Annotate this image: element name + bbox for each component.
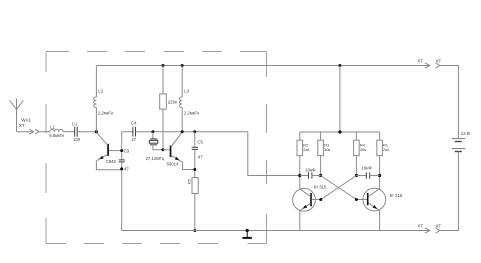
wire R4 upper bbox=[355, 132, 357, 140]
wire R4 lower bbox=[355, 156, 357, 176]
svg-text:30к: 30к bbox=[360, 147, 366, 152]
svg-text:Кт 315: Кт 315 bbox=[390, 193, 403, 198]
svg-text:47: 47 bbox=[198, 154, 203, 159]
junction dot crystal top bbox=[151, 130, 154, 133]
wire L3 upper bbox=[181, 66, 183, 98]
resistor R1 bbox=[377, 140, 383, 155]
wire C3 lower bbox=[121, 162, 123, 231]
capacitor 10nF right bbox=[366, 172, 369, 178]
svg-text:6,8мкГн: 6,8мкГн bbox=[49, 133, 65, 138]
wire C1 to node A bbox=[77, 131, 96, 133]
node A junction dot bbox=[95, 130, 98, 133]
svg-text:47: 47 bbox=[131, 137, 136, 142]
junction dot right collector node bbox=[378, 174, 381, 177]
connector XT bottom plug arrow bbox=[425, 228, 430, 233]
multivibrator rail bbox=[300, 131, 380, 133]
junction dot multivibrator rail bbox=[338, 130, 341, 133]
transistor VT3 emitter lead bbox=[300, 203, 311, 210]
wire L2 upper bbox=[95, 66, 97, 98]
junction dot R5 bottom bbox=[193, 229, 196, 232]
cross coupling wire right to left bbox=[321, 176, 357, 200]
connector XT plug arrow (antenna) bbox=[29, 129, 34, 134]
transistor VT4 base lead bbox=[356, 199, 367, 201]
svg-text:10нФ: 10нФ bbox=[305, 167, 315, 172]
junction dot ground bbox=[246, 229, 249, 232]
wire R5 lower bbox=[194, 194, 196, 231]
svg-text:L3: L3 bbox=[184, 88, 189, 93]
wire antenna to connector bbox=[17, 131, 34, 133]
junction dot right cap left node bbox=[355, 174, 358, 177]
junction dot C5 top bbox=[193, 130, 196, 133]
svg-text:12 В: 12 В bbox=[461, 131, 470, 136]
junction dot VT3 base bbox=[319, 198, 322, 201]
transistor VT4 emitter arrow bbox=[373, 205, 378, 209]
wire L1 to C1 bbox=[63, 131, 74, 133]
junction dot 220k top bbox=[162, 64, 165, 67]
junction dot C3 emitter node bbox=[120, 167, 123, 170]
transistor VT4 KT315 circle bbox=[363, 188, 386, 211]
wire crystal upper bbox=[152, 132, 154, 139]
svg-text:L2: L2 bbox=[98, 88, 103, 93]
inductor L2 bbox=[94, 97, 97, 108]
junction dot VT2 base node bbox=[162, 148, 165, 151]
transistor VT1 collector lead bbox=[96, 132, 107, 145]
transistor VT2 base lead bbox=[163, 149, 170, 151]
wire VT1 emitter down bbox=[96, 161, 121, 170]
wire R3 lower bbox=[320, 156, 322, 176]
svg-text:47: 47 bbox=[124, 167, 129, 172]
wire C5 lower bbox=[194, 149, 196, 177]
wire C5 upper bbox=[194, 132, 196, 148]
wire R1 lower to VT4 collector bbox=[379, 156, 381, 189]
transistor VT3 KT315 circle bbox=[293, 188, 316, 211]
wire L3 lower bbox=[181, 108, 183, 132]
resistor R4 bbox=[354, 140, 360, 155]
transistor VT2 emitter arrow bbox=[175, 157, 180, 161]
wire oscillator rail to multivibrator bbox=[248, 132, 300, 176]
dashed enclosure left border bbox=[45, 52, 47, 244]
wire C3 branch upper bbox=[121, 132, 123, 160]
wire R3 upper bbox=[320, 132, 322, 140]
svg-text:С945: С945 bbox=[106, 159, 117, 164]
transistor VT4 base bar bbox=[367, 193, 369, 205]
inductor L1 bbox=[50, 129, 63, 131]
transistor VT3 emitter arrow bbox=[303, 205, 308, 209]
top supply rail bbox=[96, 65, 429, 67]
transistor VT3 base bar bbox=[310, 193, 312, 206]
svg-text:C3: C3 bbox=[124, 148, 130, 153]
resistor 220k bbox=[160, 94, 167, 109]
wire top socket to battery bbox=[440, 66, 459, 139]
battery GB1 12V bbox=[452, 139, 465, 152]
wire connector to L1 bbox=[39, 131, 50, 133]
svg-text:220к: 220к bbox=[168, 100, 177, 105]
transistor VT2 emitter lead bbox=[171, 155, 183, 162]
wire R2 upper bbox=[299, 132, 301, 140]
svg-text:2к4: 2к4 bbox=[383, 147, 390, 152]
wire right cap feed bbox=[356, 175, 366, 177]
wire C4 to crystal node bbox=[136, 131, 248, 133]
svg-text:C4: C4 bbox=[131, 121, 137, 126]
wire 220k upper bbox=[162, 66, 164, 94]
junction dot VT1 base node bbox=[120, 149, 123, 152]
junction dot left cap right node bbox=[319, 174, 322, 177]
svg-text:XT: XT bbox=[417, 59, 423, 64]
wire multivibrator feed vertical bbox=[339, 66, 341, 133]
junction dot L3 collector node bbox=[181, 130, 184, 133]
wire 220k lower bbox=[162, 109, 164, 150]
wire VT2 emitter down bbox=[183, 162, 195, 169]
svg-text:Кт 315: Кт 315 bbox=[314, 185, 327, 190]
wire VT4 emitter down bbox=[379, 211, 381, 231]
transistor VT3 base lead bbox=[312, 199, 321, 201]
wire VT3 emitter down bbox=[299, 211, 301, 231]
capacitor C5 bbox=[192, 147, 198, 149]
dashed enclosure right border bbox=[266, 52, 268, 244]
transistor VT2 collector lead bbox=[171, 132, 182, 147]
junction dot left collector node bbox=[298, 174, 301, 177]
wire left cap feed bbox=[300, 175, 309, 177]
capacitor C4 bbox=[133, 127, 136, 137]
capacitor C1 bbox=[75, 127, 78, 137]
dashed enclosure top border bbox=[46, 51, 267, 53]
wire R2 lower to VT3 collector bbox=[299, 156, 301, 189]
junction dot L3 top bbox=[181, 64, 184, 67]
transistor VT2 S9014 base bar bbox=[170, 146, 172, 158]
connector XT socket (antenna) bbox=[35, 129, 39, 134]
resistor R5 emitter bbox=[192, 178, 198, 194]
ground bottom wire bbox=[122, 230, 430, 232]
crystal ZQ1 bbox=[149, 139, 158, 145]
resistor R3 bbox=[318, 140, 324, 155]
capacitor 10nF left bbox=[309, 172, 312, 178]
svg-text:S9014: S9014 bbox=[166, 161, 179, 166]
svg-text:100: 100 bbox=[73, 137, 81, 142]
junction dot VT4 base bbox=[355, 198, 358, 201]
transistor VT3 collector lead bbox=[300, 189, 311, 197]
wire L2 lower bbox=[95, 108, 97, 132]
junction dot multivibrator feed top bbox=[338, 64, 341, 67]
connector XT top socket bbox=[436, 63, 440, 68]
transistor VT1 base lead bbox=[109, 150, 122, 152]
svg-text:L1: L1 bbox=[50, 125, 55, 130]
svg-text:R5: R5 bbox=[187, 178, 192, 184]
inductor L3 bbox=[179, 97, 182, 108]
capacitor C3 bbox=[119, 160, 125, 162]
wire battery to bottom socket bbox=[440, 152, 459, 231]
transistor VT4 collector lead bbox=[369, 189, 380, 197]
wire R1 upper bbox=[379, 132, 381, 140]
antenna WA1 bbox=[10, 99, 24, 132]
connector XT bottom socket bbox=[436, 228, 440, 233]
svg-text:C5: C5 bbox=[197, 139, 203, 144]
svg-text:XT: XT bbox=[19, 123, 25, 128]
svg-text:2к4: 2к4 bbox=[303, 147, 310, 152]
svg-text:2,2мкГн: 2,2мкГн bbox=[98, 111, 114, 116]
cross coupling wire left to right bbox=[321, 176, 357, 200]
ground symbol bbox=[242, 231, 251, 238]
wire left cap to node bbox=[312, 175, 321, 177]
wire right cap to collector bbox=[370, 175, 380, 177]
svg-text:WA1: WA1 bbox=[21, 117, 31, 122]
junction dot VT2 emitter node bbox=[193, 168, 196, 171]
svg-text:2,2мкГн: 2,2мкГн bbox=[184, 111, 200, 116]
svg-text:XT: XT bbox=[417, 224, 423, 229]
connector XT top plug arrow bbox=[425, 63, 430, 68]
svg-text:27,12МГц: 27,12МГц bbox=[146, 156, 165, 161]
wire crystal lower to base node bbox=[153, 145, 163, 150]
transistor VT1 emitter lead bbox=[97, 154, 108, 160]
svg-text:C1: C1 bbox=[72, 121, 78, 126]
svg-text:30к: 30к bbox=[324, 147, 330, 152]
svg-text:10нФ: 10нФ bbox=[362, 166, 372, 171]
transistor VT1 emitter arrow bbox=[99, 156, 104, 160]
transistor VT4 emitter lead bbox=[369, 203, 380, 211]
dashed enclosure bottom border bbox=[46, 243, 267, 245]
oscillator rail wire bbox=[122, 131, 133, 133]
resistor R2 bbox=[297, 140, 303, 155]
transistor VT1 C945 base bar bbox=[107, 144, 109, 156]
